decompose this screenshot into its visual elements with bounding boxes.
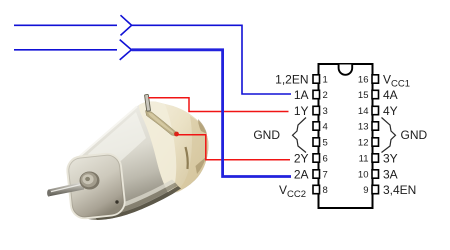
svg-text:4A: 4A <box>383 88 398 102</box>
svg-text:10: 10 <box>358 170 369 181</box>
svg-text:3A: 3A <box>383 167 398 181</box>
pin 14 box <box>372 106 379 114</box>
svg-text:1Y: 1Y <box>294 104 309 118</box>
svg-text:2: 2 <box>323 90 328 101</box>
pin 7 box <box>313 170 320 178</box>
svg-text:4Y: 4Y <box>383 104 398 118</box>
connector arrow 1 <box>121 15 132 35</box>
motor rear end cap <box>139 102 209 195</box>
cap left bright seam <box>139 102 176 195</box>
pin 2 box <box>313 90 320 98</box>
face screw hole <box>115 200 118 203</box>
thick wire line2 to 2A <box>131 50 291 177</box>
cap vent slot <box>186 147 188 169</box>
brass terminal strip <box>146 111 178 137</box>
svg-text:11: 11 <box>359 154 369 165</box>
top-left edge highlight <box>77 107 137 159</box>
svg-text:5: 5 <box>323 138 328 149</box>
wire line1 to 1A <box>132 25 291 94</box>
svg-text:3: 3 <box>323 106 328 117</box>
svg-text:13: 13 <box>358 122 369 133</box>
wire input line 1 <box>14 24 117 26</box>
svg-text:2A: 2A <box>294 167 309 181</box>
wire input line 2 <box>14 49 117 51</box>
terminal red dot <box>174 132 179 137</box>
GND brace right <box>382 118 396 153</box>
pin 15 box <box>372 90 379 98</box>
pin 5 box <box>313 138 320 146</box>
svg-text:GND: GND <box>401 128 428 142</box>
svg-text:9: 9 <box>363 185 368 196</box>
shaft highlight <box>51 184 82 191</box>
pin 1 box <box>313 75 320 83</box>
svg-text:12: 12 <box>358 138 369 149</box>
svg-text:7: 7 <box>323 170 328 181</box>
svg-text:3,4EN: 3,4EN <box>383 183 416 197</box>
svg-text:1A: 1A <box>294 88 309 102</box>
pin 6 box <box>313 154 320 162</box>
motor body can <box>69 101 209 220</box>
cap notch lower <box>196 157 207 174</box>
svg-text:1,2EN: 1,2EN <box>275 72 308 86</box>
svg-text:15: 15 <box>358 90 369 101</box>
pin 3 box <box>313 106 320 114</box>
red wire motor+ to 1Y <box>149 98 289 112</box>
pin 4 box <box>313 122 320 130</box>
svg-text:3Y: 3Y <box>383 151 398 165</box>
shaft <box>48 182 84 197</box>
top face bright streak <box>88 112 146 180</box>
pin 16 box <box>372 75 379 83</box>
pin 8 box <box>313 185 320 193</box>
svg-text:4: 4 <box>323 122 328 133</box>
svg-text:VCC1: VCC1 <box>383 72 410 89</box>
pin 12 box <box>372 138 379 146</box>
svg-text:6: 6 <box>323 154 328 165</box>
motor M1 (DC motor photo) <box>47 94 208 220</box>
pin 13 box <box>372 122 379 130</box>
svg-text:8: 8 <box>323 185 328 196</box>
svg-text:14: 14 <box>358 106 369 117</box>
front face <box>66 152 126 219</box>
svg-text:VCC2: VCC2 <box>279 183 306 200</box>
connector arrow 2 <box>120 40 132 60</box>
terminal tab <box>144 94 150 111</box>
GND brace left <box>293 118 307 153</box>
can bottom dark edge <box>95 186 181 220</box>
cap right shade crescent <box>176 116 209 193</box>
svg-text:1: 1 <box>323 75 328 86</box>
svg-text:GND: GND <box>253 128 280 142</box>
cap notch upper <box>198 119 207 134</box>
IC U1 body <box>319 64 373 208</box>
red wire motor- to 2Y <box>176 135 290 160</box>
shaft tip <box>47 190 50 197</box>
pin 10 box <box>372 170 379 178</box>
pin 9 box <box>372 185 379 193</box>
shaft hub <box>80 172 100 190</box>
svg-text:2Y: 2Y <box>294 151 309 165</box>
pin 11 box <box>372 154 379 162</box>
svg-text:16: 16 <box>358 75 369 86</box>
IC notch <box>339 65 353 75</box>
